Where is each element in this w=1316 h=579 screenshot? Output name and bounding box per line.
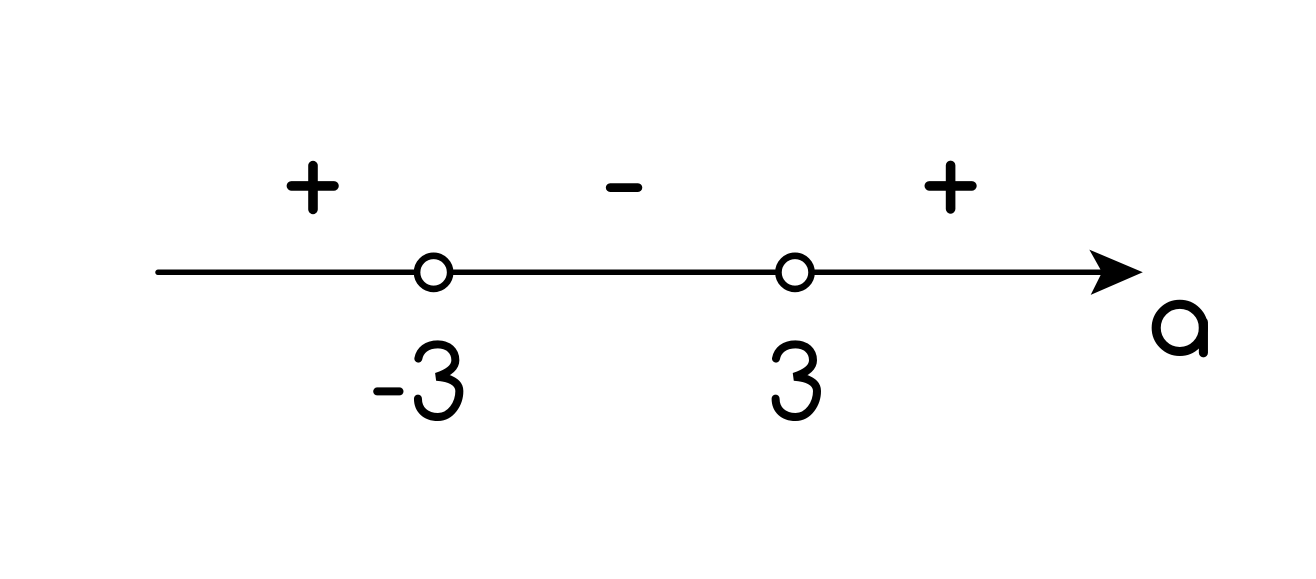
axis variable label a : stem <box>1199 322 1208 353</box>
plus sign (right region) <box>929 165 972 209</box>
open circle at 3 <box>778 256 811 289</box>
open circle at -3 <box>417 256 450 289</box>
label -3 : minus <box>377 387 399 395</box>
label -3 : digit 3 <box>418 344 459 417</box>
axis variable label a : bowl <box>1156 304 1203 351</box>
axis line (number line) <box>158 270 1108 276</box>
arrowhead at right end of axis <box>1089 250 1143 295</box>
minus sign (middle region) <box>610 183 638 192</box>
plus sign (left region) <box>291 166 334 210</box>
label 3 (right) <box>776 344 817 417</box>
